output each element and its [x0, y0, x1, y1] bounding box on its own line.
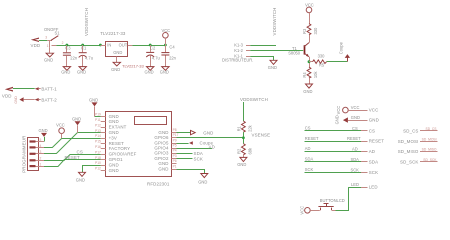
wire CS net [305, 125, 376, 133]
wire R4 to ground [309, 78, 311, 84]
svg-text:330: 330 [318, 54, 326, 59]
ground above programmer pin 5 [39, 128, 48, 142]
svg-text:SD_MOSI: SD_MOSI [398, 139, 419, 144]
svg-text:BATT-2: BATT-2 [41, 97, 57, 102]
svg-text:P12: P12 [95, 167, 101, 171]
resistor R4 10k [302, 67, 318, 78]
resistor R3 330 [302, 24, 318, 35]
svg-text:SD_CS: SD_CS [426, 127, 438, 131]
svg-text:P9: P9 [173, 138, 177, 142]
node junction at C4 [164, 44, 167, 47]
node junction at C2 [149, 44, 152, 47]
svg-text:P6: P6 [173, 159, 177, 163]
svg-text:2: 2 [62, 41, 64, 45]
IC right pins [172, 128, 179, 170]
svg-text:RESET: RESET [347, 136, 361, 141]
svg-text:22n: 22n [169, 56, 177, 61]
svg-text:VDDSWITCH: VDDSWITCH [84, 8, 89, 36]
svg-text:GND: GND [77, 70, 86, 75]
wire IC GND bottom-left [83, 166, 101, 173]
IC U2 RFD22301 [106, 112, 172, 187]
svg-text:GND: GND [109, 119, 119, 124]
svg-text:SD_MOSI: SD_MOSI [422, 137, 437, 141]
wire VDD to S1 [39, 40, 47, 42]
svg-text:Coupe: Coupe [339, 41, 344, 54]
svg-text:GND: GND [109, 114, 119, 119]
svg-text:1: 1 [47, 44, 49, 48]
wire RESET programmer pin1 to IC [44, 160, 101, 167]
svg-text:GND: GND [109, 162, 119, 167]
svg-text:GPIO1: GPIO1 [109, 157, 124, 162]
wire AD from IC [177, 148, 213, 150]
wire regulator OUT rail [132, 45, 165, 47]
svg-text:P15: P15 [95, 140, 101, 144]
svg-text:OUT: OUT [119, 42, 128, 47]
wire AD net [305, 146, 376, 154]
wire R3 to collector [309, 35, 311, 43]
supply VCC above C4 [162, 28, 171, 45]
svg-text:PROGRAMMEUR: PROGRAMMEUR [21, 136, 26, 173]
svg-text:GND: GND [160, 70, 169, 75]
svg-text:GND: GND [351, 115, 360, 120]
ground flag right of P8 [191, 130, 214, 135]
capacitor C1 (polarized) [79, 45, 93, 67]
IC left pin labels [109, 114, 137, 173]
connector K1 DISTRIBUTEUR [222, 42, 253, 62]
ground below R4 [303, 84, 312, 94]
svg-text:R5: R5 [319, 63, 325, 68]
svg-text:RESET: RESET [305, 136, 319, 141]
ground below R2 [237, 157, 247, 167]
wire VDD to BATT-1 [13, 88, 35, 90]
ground below regulator [111, 62, 120, 72]
svg-text:P10: P10 [95, 161, 101, 165]
svg-text:C4: C4 [169, 45, 175, 50]
svg-text:4.7u: 4.7u [85, 56, 93, 61]
svg-text:SD_SCK: SD_SCK [423, 158, 437, 162]
svg-text:SD_SCK: SD_SCK [400, 160, 418, 165]
wire R1 to junction [243, 132, 245, 144]
svg-text:GND: GND [369, 118, 379, 123]
resistor R5 330 [309, 54, 327, 68]
svg-text:GND: GND [203, 130, 213, 135]
svg-text:SCK: SCK [305, 167, 314, 172]
ground below C4 [160, 67, 169, 75]
svg-text:SDA: SDA [305, 157, 314, 162]
svg-text:TLV2217-33: TLV2217-33 [122, 63, 144, 68]
svg-text:VCC: VCC [56, 122, 65, 127]
svg-text:GND: GND [89, 98, 98, 103]
pushbutton S2 BUTTONLCD [318, 198, 344, 210]
svg-text:DISTRIBUTEUR.: DISTRIBUTEUR. [222, 58, 253, 63]
svg-text:R3: R3 [302, 28, 307, 34]
svg-text:RESET: RESET [109, 141, 125, 146]
svg-text:GND: GND [237, 162, 246, 167]
ground below S1 [44, 48, 54, 63]
supply VCC (button) [300, 206, 320, 215]
svg-text:AD: AD [305, 146, 311, 151]
svg-text:GND: GND [198, 179, 207, 184]
supply VCC (programmer) [56, 122, 65, 138]
svg-text:AD: AD [209, 144, 215, 149]
svg-text:GND: GND [72, 116, 81, 121]
svg-text:2: 2 [40, 157, 42, 161]
wire RESET net [305, 136, 385, 144]
wire R5 to Coupe label [327, 61, 348, 63]
svg-text:VDD: VDD [31, 43, 41, 48]
svg-text:P4: P4 [173, 149, 177, 153]
ground above wire (GND flag) [72, 116, 81, 132]
node emitter junction [308, 60, 311, 63]
ground below K1-1 [268, 60, 277, 70]
wire IC P17 net to divider junction (VSENSE) [177, 137, 244, 139]
svg-text:SD_CS: SD_CS [403, 128, 418, 133]
node junction at C1 [81, 44, 84, 47]
svg-text:SCK: SCK [351, 167, 360, 172]
svg-text:K1-3: K1-3 [234, 42, 243, 47]
svg-text:GPIO0/AREF: GPIO0/AREF [109, 152, 137, 157]
svg-text:22n: 22n [70, 56, 78, 61]
pin BATT-1 [35, 87, 58, 92]
svg-text:LED: LED [351, 182, 359, 187]
node junction at IN [99, 44, 102, 47]
svg-text:VSENSE: VSENSE [252, 133, 271, 138]
svg-text:P17: P17 [173, 133, 179, 137]
supply VCC (transistor) [305, 3, 314, 24]
svg-text:5: 5 [40, 138, 42, 142]
voltage regulator U1 TLV2217-33 [100, 31, 144, 68]
wire IC P1 to ground [177, 170, 205, 174]
svg-text:P11: P11 [95, 118, 101, 122]
svg-text:R1: R1 [237, 125, 242, 131]
svg-text:GND: GND [109, 130, 119, 135]
svg-text:3: 3 [45, 35, 47, 39]
svg-text:GND: GND [145, 70, 154, 75]
ground below C3 [61, 67, 70, 75]
svg-text:BUTTONLCD: BUTTONLCD [320, 198, 345, 203]
svg-text:CS: CS [305, 125, 311, 130]
IC left pins [95, 113, 106, 171]
svg-text:BATT-1: BATT-1 [41, 87, 57, 92]
svg-text:FACTORY: FACTORY [109, 146, 131, 151]
svg-text:GND: GND [335, 115, 340, 124]
wire IC P8 to GND flag [177, 132, 191, 134]
svg-text:S8050: S8050 [288, 50, 301, 55]
svg-text:4.7u: 4.7u [152, 56, 160, 61]
svg-text:VCC: VCC [300, 206, 305, 215]
connector SD pins [398, 127, 438, 165]
ground below C2 [145, 67, 154, 75]
svg-text:GND: GND [158, 166, 168, 171]
connector J1 PROGRAMMEUR [21, 136, 44, 173]
svg-text:RESET: RESET [65, 155, 81, 160]
svg-text:R4: R4 [302, 72, 307, 78]
svg-text:C2: C2 [150, 46, 156, 51]
svg-text:P12: P12 [95, 123, 101, 127]
svg-text:GND: GND [39, 128, 48, 133]
svg-text:CS: CS [352, 126, 358, 131]
svg-text:IN: IN [107, 42, 111, 47]
svg-text:SD_MISO: SD_MISO [422, 148, 437, 152]
svg-text:SCK: SCK [369, 170, 378, 175]
svg-text:R2: R2 [237, 148, 242, 154]
pin BATT-2 [35, 97, 58, 102]
label Coupe flag on P9 [177, 141, 214, 146]
svg-text:AD: AD [369, 149, 375, 154]
svg-text:22k: 22k [248, 124, 253, 132]
svg-text:SCK: SCK [194, 156, 203, 161]
wire K1-2 to transistor base [250, 50, 303, 52]
svg-text:RFD22301: RFD22301 [147, 182, 170, 187]
svg-text:C1: C1 [81, 46, 87, 51]
ground below-left of IC [76, 172, 86, 182]
svg-text:GND: GND [303, 89, 312, 94]
svg-text:LED: LED [369, 185, 378, 190]
svg-text:TLV2217-33: TLV2217-33 [100, 31, 126, 36]
svg-text:P5: P5 [173, 144, 177, 148]
capacitor C4 [161, 45, 176, 67]
wire VDDSWITCH to R1 [243, 102, 245, 121]
ground below C1 [77, 67, 86, 75]
node VSENSE junction [242, 136, 245, 139]
svg-text:SDA: SDA [351, 157, 360, 162]
svg-text:SD_MISO: SD_MISO [398, 149, 419, 154]
svg-text:C3: C3 [65, 46, 71, 51]
connector JP1 (VCC row) [336, 105, 379, 114]
supply VDD (battery) [2, 87, 13, 99]
label Coupe (vertical flag) [339, 41, 351, 61]
svg-text:GND: GND [268, 65, 277, 70]
svg-text:AD: AD [352, 147, 358, 152]
ground (JP1 GND row) [335, 115, 379, 124]
capacitor C3 [63, 45, 78, 67]
resistor R2 68k [237, 144, 253, 155]
svg-text:1: 1 [40, 163, 42, 167]
svg-text:GND: GND [44, 57, 53, 62]
svg-text:GND: GND [109, 168, 119, 173]
svg-text:+3V: +3V [109, 135, 117, 140]
svg-text:GND: GND [14, 96, 18, 104]
resistor R1 22k [237, 121, 253, 132]
svg-text:GND: GND [76, 178, 85, 183]
svg-text:P8: P8 [173, 128, 177, 132]
capacitor C2 (polarized) [146, 45, 160, 67]
switch S1 ON/OFF [44, 27, 64, 48]
svg-text:VCC: VCC [336, 106, 341, 115]
svg-text:CS: CS [369, 128, 375, 133]
wire SDA net [305, 157, 379, 165]
svg-text:GND: GND [111, 67, 120, 72]
wire K1-1 to ground [250, 57, 273, 61]
svg-text:330: 330 [313, 27, 318, 35]
svg-text:SDA: SDA [369, 160, 378, 165]
svg-text:CS: CS [77, 149, 83, 154]
svg-text:VDDSWITCH: VDDSWITCH [272, 8, 277, 36]
svg-text:VCC: VCC [369, 108, 379, 113]
wire SCK net [305, 167, 379, 175]
svg-text:EXTANT: EXTANT [109, 125, 127, 130]
svg-text:68k: 68k [248, 147, 253, 155]
transistor T1 S8050 [288, 43, 309, 67]
ground above IC pin P19 [89, 98, 101, 117]
svg-text:P16: P16 [95, 145, 101, 149]
svg-text:P3: P3 [173, 154, 177, 158]
svg-text:3: 3 [40, 150, 42, 154]
wire button to LED row [336, 187, 349, 210]
svg-text:S1: S1 [55, 30, 61, 35]
ground below-right of IC [198, 174, 208, 185]
svg-text:GND: GND [61, 70, 70, 75]
svg-text:VDDSWITCH: VDDSWITCH [240, 97, 268, 102]
svg-text:GND: GND [113, 50, 122, 55]
wire K1-3 net VDDSWITCH [250, 45, 276, 47]
node junction at C3 [66, 44, 69, 47]
wire CS programmer pin2 to IC [44, 155, 101, 161]
svg-text:P14: P14 [95, 134, 101, 138]
wire SCK from IC [177, 158, 193, 160]
svg-text:VCC: VCC [351, 105, 360, 110]
wire R2 to ground [243, 155, 245, 158]
wire LED net [349, 182, 378, 190]
svg-text:P17: P17 [95, 150, 101, 154]
IC right pin labels [154, 130, 169, 171]
svg-text:10k: 10k [313, 71, 318, 79]
svg-text:RESET: RESET [369, 139, 385, 144]
supply VDD (top-left) [31, 38, 41, 49]
wire programmer pin3 to IC GND pin [44, 133, 101, 154]
wire SDA from IC [177, 153, 193, 155]
svg-text:VDD: VDD [2, 94, 12, 99]
wire programmer pin4 to IC +3V [44, 139, 101, 148]
ground at BATT-2 [14, 96, 35, 104]
svg-text:4: 4 [40, 144, 42, 148]
wire VDDSWITCH rail (S1 to regulator IN) [56, 45, 100, 47]
svg-text:P1: P1 [173, 164, 177, 168]
svg-text:K1-2: K1-2 [234, 48, 243, 53]
